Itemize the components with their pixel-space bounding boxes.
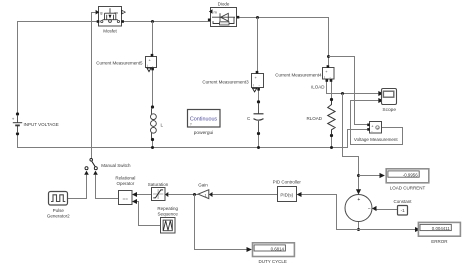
svg-text:g: g — [100, 10, 102, 15]
arrow scope input 2 — [378, 98, 383, 103]
svg-text:Gain: Gain — [198, 182, 208, 187]
Relational Operator — [119, 191, 133, 205]
label Mosfet — [103, 28, 117, 33]
svg-text:Constant: Constant — [393, 199, 412, 204]
Constant block — [398, 206, 408, 216]
arrow into Relational bottom input — [132, 199, 137, 204]
wire Constant to sum — [376, 209, 398, 211]
wire PID out to Gain — [213, 194, 278, 196]
svg-text:Sequence: Sequence — [158, 211, 179, 216]
wire Relational out to switch right contact — [96, 175, 119, 199]
svg-text:−: − — [368, 207, 371, 213]
arrow switch left input — [84, 171, 89, 175]
wire node to Current Measurement5 — [152, 22, 154, 55]
label Pulse Generator2 — [53, 208, 65, 213]
Saturation — [152, 188, 166, 201]
label iLOAD — [311, 84, 325, 89]
arrow switch right input — [93, 171, 98, 175]
label ERROR — [431, 239, 448, 244]
svg-text:Pulse: Pulse — [53, 208, 65, 213]
wire CM3 bottom to capacitor — [258, 91, 260, 111]
Current Measurement5 — [146, 54, 157, 72]
wire Mosfet out to Diode — [122, 21, 211, 23]
svg-text:Continuous: Continuous — [190, 116, 218, 122]
Gain — [198, 190, 209, 199]
svg-text:Current Measurement5: Current Measurement5 — [96, 60, 143, 65]
arrow into ERROR display — [415, 227, 420, 232]
arrow scope input 1 — [378, 91, 383, 96]
label Current Measurement5 — [96, 60, 143, 65]
junction error line — [357, 228, 360, 231]
wire Repeating Sequence to Relational Operator — [137, 202, 161, 226]
wire CM4 i-signal to Scope input 1 — [327, 82, 379, 94]
Pulse Generator2 — [49, 192, 68, 206]
label PID Controller — [273, 180, 302, 185]
svg-text:Saturation: Saturation — [148, 182, 169, 187]
wire iLOAD to LOAD CURRENT display — [359, 175, 380, 177]
svg-text:==: == — [122, 196, 128, 201]
capacitor C — [254, 100, 264, 135]
wire gain junction down to DUTY CYCLE — [195, 195, 247, 250]
svg-text:Relational: Relational — [115, 176, 135, 181]
arrow into Saturation input — [165, 192, 168, 197]
PID Controller — [278, 187, 297, 202]
wire RLOAD bottom to ground rail — [331, 130, 333, 148]
Manual Switch — [85, 159, 97, 170]
Diode D1 — [208, 8, 239, 27]
junction gain output — [193, 193, 196, 196]
label DUTY CYCLE — [258, 259, 286, 264]
svg-text:+: + — [357, 197, 360, 203]
svg-text:0.6814: 0.6814 — [271, 246, 285, 251]
svg-text:iLOAD: iLOAD — [311, 84, 325, 89]
svg-text:v: v — [377, 127, 379, 131]
svg-text:Manual Switch: Manual Switch — [101, 163, 131, 168]
wire Diode out to output node — [239, 18, 329, 66]
wire Gain out to Saturation — [168, 194, 198, 196]
svg-text:Current Measurement3: Current Measurement3 — [202, 79, 249, 84]
battery INPUT VOLTAGE — [12, 112, 23, 135]
svg-text:Diode: Diode — [218, 1, 230, 6]
label Saturation — [148, 182, 169, 187]
svg-text:Mosfet: Mosfet — [103, 28, 117, 33]
label RLOAD — [307, 116, 323, 121]
display LOAD CURRENT — [386, 169, 429, 183]
svg-text:1: 1 — [205, 193, 207, 197]
label powergui — [194, 130, 213, 136]
wire capacitor bottom to ground rail — [258, 125, 260, 148]
label LOAD CURRENT — [390, 185, 426, 190]
svg-text:Repeating: Repeating — [157, 206, 178, 211]
wire feedback error to PID input — [300, 195, 359, 230]
svg-text:Operator: Operator — [117, 181, 135, 186]
label L — [161, 123, 164, 128]
wire Saturation out to Relational Operator — [137, 194, 152, 196]
Current Measurement3 — [252, 71, 264, 92]
Mosfet U1 — [96, 7, 126, 27]
svg-text:Generator2: Generator2 — [47, 214, 70, 219]
arrow into sum right — [372, 206, 377, 211]
svg-text:powergui: powergui — [194, 130, 213, 136]
resistor RLOAD — [328, 98, 335, 137]
label Repeating Sequence — [157, 206, 178, 211]
junction inductor on rail — [151, 146, 154, 149]
svg-text:PID Controller: PID Controller — [273, 180, 302, 185]
label INPUT VOLTAGE — [24, 122, 59, 127]
wire inductor bottom to ground rail — [152, 140, 154, 148]
arrow into sum top — [356, 189, 361, 194]
svg-text:-0.9956: -0.9956 — [403, 172, 418, 177]
svg-text:-1: -1 — [401, 208, 406, 213]
svg-text:Current Measurement4: Current Measurement4 — [275, 72, 322, 77]
arrow into PID input — [297, 192, 302, 197]
Repeating Sequence — [161, 218, 176, 234]
inductor L — [151, 105, 157, 141]
wire Pulse Generator out to switch left contact — [68, 175, 87, 199]
svg-text:+: + — [12, 117, 15, 122]
svg-text:?: ? — [190, 122, 192, 126]
label Current Measurement3 — [202, 79, 249, 84]
svg-text:ERROR: ERROR — [431, 239, 448, 244]
svg-text:LOAD CURRENT: LOAD CURRENT — [390, 185, 426, 190]
arrow into Relational top input — [132, 192, 137, 197]
svg-text:DUTY CYCLE: DUTY CYCLE — [258, 259, 286, 264]
arrow into LOAD CURRENT — [380, 173, 385, 178]
wire node down to CM3 — [257, 18, 259, 72]
sum block — [345, 195, 372, 222]
node junction above CM5 — [151, 20, 154, 23]
junction RLOAD on rail — [330, 146, 333, 149]
Current Measurement4 — [323, 65, 335, 82]
wire Voltage Measurement out loop to Scope input 2 — [351, 101, 403, 145]
wire CM5 bottom to inductor — [152, 70, 154, 107]
node junction above CM3 — [256, 16, 259, 19]
Scope — [382, 89, 397, 105]
wire error to ERROR display — [359, 229, 416, 231]
junction iLOAD split — [341, 92, 344, 95]
wire ground rail — [18, 130, 368, 148]
wire CM4 bottom to RLOAD — [331, 82, 333, 105]
svg-text:Scope: Scope — [382, 107, 396, 113]
powergui block — [188, 110, 221, 128]
label C — [247, 116, 251, 121]
junction capacitor on rail — [257, 146, 260, 149]
label Manual Switch — [101, 163, 131, 168]
node junction right of CM4 top — [327, 55, 330, 58]
wire iLOAD down to displays and sum — [343, 94, 359, 192]
label Diode — [218, 1, 230, 6]
junction iLOAD to display — [357, 174, 360, 177]
label Gain — [198, 182, 208, 187]
label Relational Operator — [115, 176, 135, 181]
wire sum out to error line — [358, 222, 360, 230]
arrow into Gain input — [209, 192, 213, 197]
svg-text:0.004411: 0.004411 — [432, 226, 451, 231]
wire top rail battery+ to Mosfet — [18, 22, 99, 114]
wire output node tap to Voltage Measurement + — [329, 57, 368, 125]
label Current Measurement4 — [275, 72, 322, 77]
display DUTY CYCLE — [253, 243, 295, 257]
svg-text:Voltage Measurement: Voltage Measurement — [354, 137, 399, 142]
Voltage Measurement — [367, 122, 381, 134]
wire gate from Manual Switch to Mosfet g — [92, 13, 96, 159]
arrow into DUTY CYCLE — [247, 247, 252, 252]
label Constant — [393, 199, 412, 204]
label Scope — [382, 107, 396, 113]
label Voltage Measurement — [354, 137, 399, 142]
display ERROR — [418, 222, 460, 236]
svg-text:INPUT VOLTAGE: INPUT VOLTAGE — [24, 122, 59, 127]
svg-text:PID(s): PID(s) — [280, 193, 293, 198]
svg-text:RLOAD: RLOAD — [307, 116, 323, 121]
